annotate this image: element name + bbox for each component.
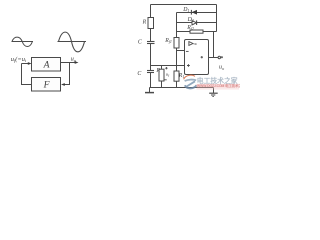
svg-text:D2: D2 [187, 17, 194, 23]
svg-text:C: C [137, 71, 141, 77]
svg-text:WWW.DGZJ.COM 电工技术之家: WWW.DGZJ.COM 电工技术之家 [197, 83, 240, 88]
svg-text:uo: uo [71, 56, 77, 63]
svg-text:Rf1: Rf1 [164, 38, 172, 44]
svg-text:C: C [138, 40, 142, 46]
svg-text:R: R [142, 19, 147, 25]
svg-text:Rf2: Rf2 [186, 25, 194, 31]
svg-text:D1: D1 [182, 7, 189, 13]
svg-text:uf: uf [166, 71, 170, 77]
svg-text:R1: R1 [178, 73, 185, 79]
svg-text:uo: uo [219, 65, 225, 71]
svg-text:R: R [155, 68, 160, 74]
svg-text:F: F [43, 80, 50, 91]
svg-text:∞: ∞ [194, 42, 198, 47]
svg-text:A: A [43, 60, 50, 71]
svg-text:uf(=ui: uf(=ui [11, 56, 27, 63]
